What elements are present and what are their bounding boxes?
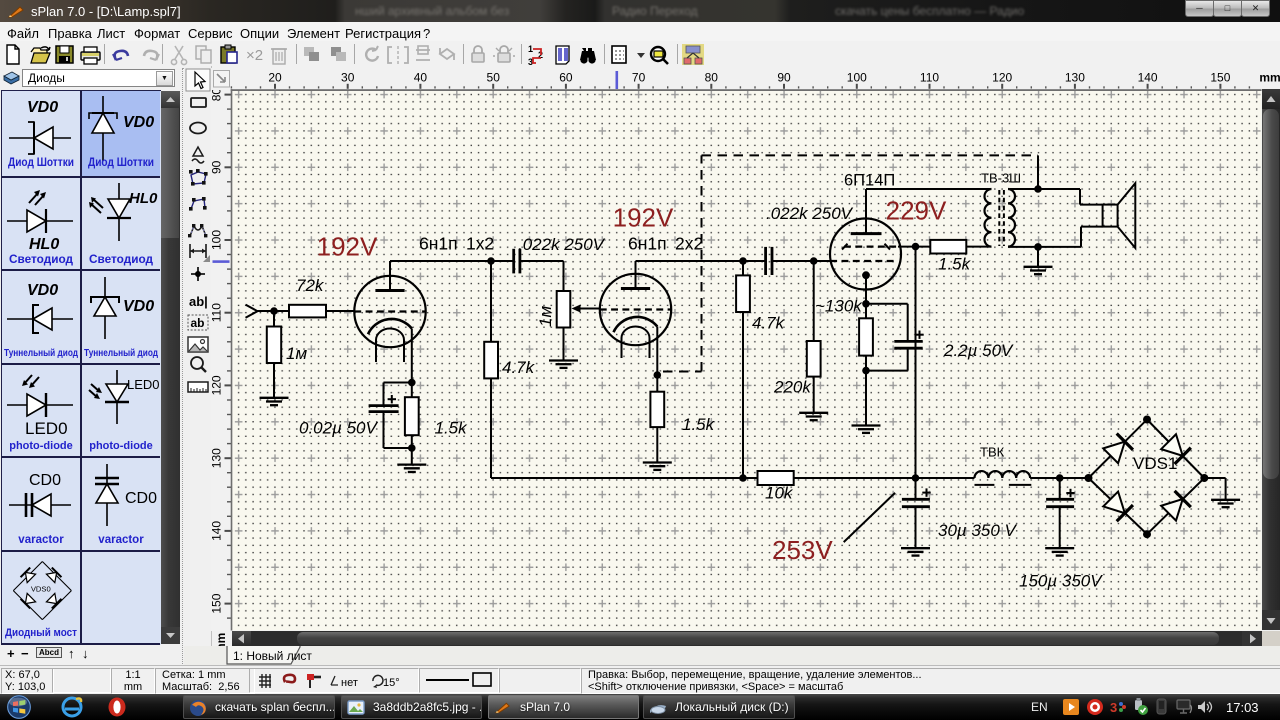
svg-text:.022k 250V: .022k 250V: [518, 235, 606, 254]
dimension: [190, 244, 206, 258]
plus mark C 0.02u polarity: [388, 395, 396, 403]
svg-text:20: 20: [268, 71, 282, 85]
redo gray: [144, 51, 157, 60]
svg-text:4.7k: 4.7k: [502, 358, 536, 377]
svg-text:100: 100: [847, 71, 867, 85]
bom: [556, 46, 569, 64]
row2 left : LED horizontal: [1, 177, 80, 269]
svg-text:0.02µ 50V: 0.02µ 50V: [299, 419, 379, 438]
wire C 2.2u top lead: [907, 304, 909, 342]
wire to speaker terminal 2: [1081, 226, 1103, 228]
resistor R 1.5k first: [405, 397, 419, 435]
svg-text:varactor: varactor: [18, 534, 64, 546]
junction rail node 150u: [1056, 474, 1064, 482]
wire R 1.5k-3 to primary bottom: [966, 246, 991, 248]
svg-text:.022k 250V: .022k 250V: [766, 204, 854, 223]
capacitor C .022k second: [766, 247, 772, 275]
wire R 1.5k-2 to ground: [656, 427, 658, 462]
new: [7, 45, 19, 64]
tube V2 6n1p-2 (triode): [600, 261, 671, 375]
svg-text:ab: ab: [191, 316, 205, 330]
svg-text:ТВ-3Ш: ТВ-3Ш: [981, 171, 1021, 186]
wire bridge arm L-B: [1089, 478, 1148, 534]
junction V3 cathode node top: [862, 300, 870, 308]
resistor R 1.5k second: [650, 392, 664, 427]
ground GND V3 grid: [799, 413, 828, 420]
wire feedback bottom (dashed): [663, 371, 702, 373]
rotate: [366, 49, 378, 61]
wire node to R 220k: [813, 261, 815, 341]
wire cathode node to C 0.02u top: [384, 382, 412, 384]
wire R to ground: [865, 356, 867, 426]
svg-text:2.2µ 50V: 2.2µ 50V: [943, 341, 1014, 360]
svg-text:VD0: VD0: [27, 282, 58, 299]
svg-text:100: 100: [211, 230, 224, 250]
wire screen node to B+ rail: [915, 247, 917, 478]
node +: [191, 267, 205, 281]
junction V1 cathode ground node: [408, 444, 416, 452]
row4 right : photo-diode vertical: [81, 364, 160, 456]
selected cell: [81, 91, 160, 176]
junction node V3 grid / R 220k: [810, 257, 818, 265]
junction input node: [270, 307, 278, 315]
svg-text:VDS1: VDS1: [1133, 454, 1177, 473]
ground GND V1 cathode: [397, 465, 426, 472]
ground GND V1 grid leak: [260, 398, 289, 405]
svg-text:~130k: ~130k: [815, 297, 863, 316]
svg-text:1: Новый лист: 1: Новый лист: [233, 649, 312, 663]
magnifier: [191, 357, 203, 369]
junction V1 cathode node: [408, 379, 416, 387]
capacitor C 150u: [1046, 499, 1074, 506]
wire to speaker upper: [1079, 189, 1081, 205]
svg-text:VD0: VD0: [123, 298, 154, 315]
binoculars: [580, 48, 596, 60]
diode D2 (bridge VDS1): [1160, 434, 1190, 464]
svg-text:140: 140: [1138, 71, 1158, 85]
svg-text:15°: 15°: [383, 677, 400, 689]
wire V1 anode rail to C1: [390, 260, 514, 262]
svg-text:mm: mm: [1259, 71, 1280, 85]
junction V3 cathode node bottom: [862, 367, 870, 375]
svg-text:Светодиод: Светодиод: [9, 254, 74, 266]
svg-text:110: 110: [211, 303, 224, 322]
wire C 2.2u bottom lead: [907, 348, 909, 370]
image: [188, 337, 208, 352]
ground GND pot: [549, 361, 578, 368]
mirror: [388, 47, 408, 63]
wire feedback to secondary: [1037, 155, 1039, 189]
svg-text:Туннельный диод: Туннельный диод: [84, 347, 158, 359]
diode D4 (bridge VDS1): [1160, 491, 1190, 521]
wire R 4.7k-2 to B+ rail: [742, 312, 744, 478]
wire R 4.7k to B+ rail: [490, 378, 492, 478]
svg-text:229V: 229V: [886, 196, 947, 226]
plus mark C 2.2u polarity: [915, 331, 923, 339]
junction screen node: [912, 243, 920, 251]
junction secondary top node: [1034, 185, 1042, 193]
svg-text:6П14П: 6П14П: [844, 172, 895, 190]
wire to C 2.2u top: [866, 303, 908, 305]
wire cathode to R 1.5k-2: [656, 375, 658, 392]
row1 right : schottky vertical (selected): [81, 91, 160, 176]
ruler icon: [188, 382, 208, 392]
potentiometer 1M: [557, 291, 600, 328]
svg-text:150: 150: [211, 593, 224, 613]
svg-text:90: 90: [777, 71, 791, 85]
svg-text:Диод Шоттки: Диод Шоттки: [8, 157, 74, 169]
row1 left : schottky horizontal: [1, 91, 80, 176]
flip: [416, 50, 430, 60]
wire secondary to ground: [1037, 247, 1039, 267]
svg-text:CD0: CD0: [29, 472, 61, 489]
tray: [1031, 700, 1048, 714]
svg-text:1.5k: 1.5k: [682, 415, 716, 434]
junction bridge AC top: [1143, 416, 1151, 424]
svg-text:30: 30: [341, 71, 355, 85]
svg-text:VD0: VD0: [27, 99, 58, 116]
svg-text:1м: 1м: [286, 344, 307, 363]
svg-text:VDS0: VDS0: [31, 584, 51, 593]
resistor R cathode 130k: [859, 318, 873, 355]
svg-text:×2: ×2: [246, 47, 263, 64]
save: [56, 46, 73, 63]
svg-text:253V: 253V: [772, 535, 833, 565]
svg-text:130: 130: [1065, 71, 1085, 85]
cursor (selected): [186, 69, 210, 91]
wire cathode node to R: [865, 304, 867, 319]
junction rail node R4.7k-2: [739, 474, 747, 482]
wire pot to ground: [563, 328, 565, 361]
open: [31, 48, 47, 53]
ground GND secondary: [1024, 267, 1053, 274]
junction bridge DC left: [1085, 474, 1093, 482]
diode D1 (bridge VDS1): [1103, 434, 1133, 464]
svg-text:40: 40: [414, 71, 428, 85]
svg-text:50: 50: [487, 71, 501, 85]
toolbar bottom groove: [0, 68, 1280, 69]
svg-text:6н1п 2x2: 6н1п 2x2: [628, 234, 703, 254]
wire C bottom to node: [384, 447, 412, 449]
svg-text:6н1п 1x2: 6н1п 1x2: [419, 234, 494, 254]
svg-text:110: 110: [920, 71, 939, 85]
row2 right : LED vertical: [81, 177, 160, 269]
svg-text:photo-diode: photo-diode: [89, 440, 153, 452]
junction secondary bottom node: [1034, 243, 1042, 251]
polygon: [191, 172, 206, 184]
svg-text:1: 1: [528, 44, 533, 54]
plus mark C 30u polarity: [922, 488, 930, 496]
wire node to R 1m: [273, 311, 275, 327]
wire to speaker lower: [1080, 227, 1082, 247]
tube V1 6n1p-1 (triode): [354, 261, 425, 383]
rectangle: [191, 98, 206, 107]
order: [440, 49, 454, 59]
transformer TV-3Sh: [985, 189, 1015, 247]
IE: [60, 696, 84, 718]
wire rail choke to bridge: [1030, 477, 1088, 479]
button 3 (active): [488, 695, 639, 719]
wire node to R 4.7k-2: [742, 261, 744, 275]
wire V1 cathode to R 1.5k: [411, 383, 413, 398]
svg-text:Диодный мост: Диодный мост: [5, 627, 78, 639]
svg-text:LED0: LED0: [127, 377, 160, 392]
svg-text:HL0: HL0: [129, 190, 158, 207]
palette scrollbar: [161, 91, 180, 644]
row3 right : tunnel vertical: [81, 271, 160, 363]
palette footer: [0, 645, 183, 665]
wire C 150u to ground: [1059, 507, 1061, 548]
wire node to R 4.7k: [490, 261, 492, 342]
diode D3 (bridge VDS1): [1103, 491, 1133, 521]
resistor R 220k: [807, 341, 821, 377]
svg-text:192V: 192V: [317, 232, 378, 262]
ground GND V3 cathode: [852, 426, 881, 433]
speaker LS1: [1103, 183, 1136, 248]
pointer line 253V: [844, 493, 895, 542]
mm label bottom of v-ruler: [214, 628, 228, 654]
junction bridge DC right: [1200, 474, 1208, 482]
wire feedback vertical (dashed): [701, 155, 703, 371]
svg-text:1м: 1м: [536, 306, 555, 327]
svg-text:80: 80: [211, 90, 224, 101]
wire C1 to pot: [520, 260, 564, 262]
start orb: [5, 694, 33, 720]
choke TVK: [975, 471, 1032, 485]
svg-text:varactor: varactor: [98, 534, 144, 546]
svg-text:192V: 192V: [613, 203, 674, 233]
resistor R 10k: [758, 471, 794, 485]
wire B+ rail mid: [794, 477, 975, 479]
opera: [106, 696, 128, 718]
paste colored: [221, 47, 235, 63]
svg-text:220k: 220k: [773, 378, 812, 397]
wire bridge to ground wire: [1204, 477, 1225, 479]
row3 left : tunnel horizontal: [1, 271, 80, 363]
[ab]: [188, 315, 208, 330]
wire secondary bottom: [1008, 246, 1081, 248]
wire V3 anode to primary top: [866, 188, 992, 190]
input arrow J1: [246, 305, 258, 318]
wire bridge arm T-R: [1147, 420, 1204, 479]
wire feedback top (dashed): [702, 154, 1039, 156]
wire B+ rail left: [491, 477, 758, 479]
svg-text:60: 60: [559, 71, 573, 85]
svg-text:LED0: LED0: [25, 419, 68, 438]
junction rail node 30u: [912, 474, 920, 482]
svg-text:VD0: VD0: [123, 114, 154, 131]
wire bridge arm L-T: [1089, 420, 1148, 479]
wire C 0.02u top lead: [383, 383, 385, 406]
svg-text:120: 120: [992, 71, 1012, 85]
button 2: [341, 695, 482, 719]
junction node V2 anode / R 4.7k-2: [739, 257, 747, 265]
row6 left : bridge: [1, 551, 80, 643]
junction V2 cathode node: [654, 371, 662, 379]
wire down to ground: [1225, 478, 1227, 500]
wire to C 2.2u bottom: [866, 370, 908, 372]
svg-text:photo-diode: photo-diode: [9, 440, 73, 452]
svg-text:90: 90: [211, 160, 224, 174]
row4 left : photo-diode horizontal: [1, 364, 80, 456]
ground GND V2 cathode: [643, 463, 672, 470]
svg-text:Диод Шоттки: Диод Шоттки: [88, 157, 154, 169]
svg-text:130: 130: [211, 448, 224, 468]
svg-text:30µ 350 V: 30µ 350 V: [938, 521, 1018, 540]
capacitor C 30u: [902, 499, 930, 506]
svg-text:Туннельный диод: Туннельный диод: [4, 347, 78, 359]
wire C 0.02u bottom lead: [383, 412, 385, 448]
wire secondary top to speaker: [1008, 188, 1080, 190]
capacitor C 0.02u: [369, 406, 399, 412]
cell borders: [80, 90, 82, 644]
svg-text:10k: 10k: [765, 484, 794, 503]
resistor R 1m: [267, 327, 281, 364]
wire to pot top: [563, 261, 565, 291]
button 1: [183, 695, 335, 719]
wire to C 150u: [1059, 478, 1061, 499]
resistor R 1.5k third: [930, 240, 966, 254]
wire R 1.5k to ground: [411, 435, 413, 464]
wire R 72k to V1 grid: [326, 310, 354, 312]
undo: [115, 51, 128, 60]
wire input to R 72k: [258, 310, 290, 312]
bezier N: [190, 226, 206, 236]
wire C2 to V3 grid: [772, 260, 830, 262]
plus mark C 150u polarity: [1066, 489, 1074, 497]
cut gray: [175, 46, 183, 59]
tube V3 6P14P (pentode): [830, 189, 901, 304]
svg-text:140: 140: [211, 521, 224, 541]
svg-text:HL0: HL0: [29, 236, 59, 253]
print: [81, 52, 100, 60]
capacitor C 2.2u: [894, 341, 922, 348]
svg-text:150µ 350V: 150µ 350V: [1019, 572, 1103, 591]
capacitor C .022k first: [514, 249, 520, 274]
wire V3 screen to R 1.5k-3: [898, 246, 930, 248]
svg-text:CD0: CD0: [125, 490, 157, 507]
wire bridge arm B-R: [1147, 478, 1204, 534]
wire to speaker terminal 1: [1080, 204, 1103, 206]
resistor R 72k: [289, 305, 326, 318]
row5 left : varactor horizontal: [1, 458, 80, 550]
svg-text:ТВК: ТВК: [980, 445, 1005, 460]
svg-text:120: 120: [211, 375, 224, 395]
button 4: [643, 695, 795, 719]
wire to C 30u: [915, 478, 917, 499]
wire V2 anode rail to C2: [636, 260, 766, 262]
junction node anode rail / R 4.7k: [487, 257, 495, 265]
ellipse: [190, 123, 206, 134]
splitter: [182, 68, 184, 664]
wire C 30u to ground: [915, 507, 917, 548]
resistor R 4.7k first: [484, 342, 498, 379]
ground GND C 30u: [901, 548, 930, 555]
svg-text:ab|: ab|: [189, 294, 208, 309]
svg-text:80: 80: [705, 71, 719, 85]
ground GND C 150u: [1045, 548, 1074, 555]
svg-text:70: 70: [632, 71, 646, 85]
special A~: [193, 147, 203, 156]
svg-text:72k: 72k: [296, 276, 325, 295]
polyline: [191, 199, 205, 209]
junction bridge AC bottom: [1143, 530, 1151, 538]
trash gray: [273, 49, 285, 64]
svg-text:1.5k: 1.5k: [435, 419, 469, 438]
svg-text:Светодиод: Светодиод: [89, 254, 154, 266]
svg-text:4.7k: 4.7k: [752, 314, 786, 333]
row5 right : varactor vertical: [81, 458, 160, 550]
copy gray: [196, 46, 206, 59]
svg-text:1.5k: 1.5k: [938, 255, 972, 274]
resistor R 4.7k second: [736, 275, 750, 312]
wire R 1m to ground: [273, 363, 275, 398]
svg-text:нет: нет: [341, 677, 358, 689]
wire R 220k to ground: [813, 377, 815, 413]
svg-text:3: 3: [1110, 700, 1117, 715]
ground GND bridge: [1211, 500, 1240, 507]
svg-text:150: 150: [1210, 71, 1230, 85]
